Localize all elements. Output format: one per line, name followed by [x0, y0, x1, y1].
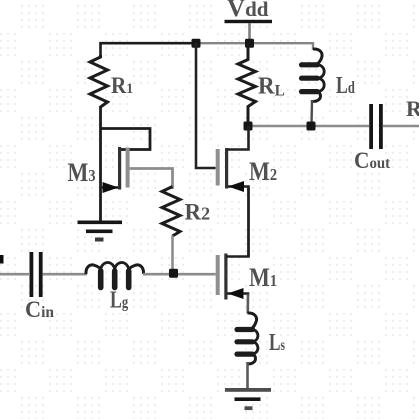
resistor R1 — [90, 55, 108, 107]
capacitor Cin — [30, 252, 43, 297]
transistor M1 — [216, 254, 249, 300]
ground under M3 — [78, 221, 123, 242]
label R (cut at edge) — [406, 96, 419, 121]
wire input to Cin — [0, 273, 29, 276]
wire R1 to M3 and ground (left vertical) — [99, 106, 102, 221]
wire output node horizontal — [248, 125, 369, 128]
wire M1 source to Ls — [247, 294, 250, 314]
wire Cout to edge — [383, 125, 419, 128]
wire M2 gate from rail — [196, 43, 216, 168]
svg-text:R2: R2 — [185, 200, 211, 225]
wire Ls to ground — [246, 362, 249, 389]
M2 gate bar — [216, 149, 220, 186]
label RL — [258, 73, 285, 100]
inductor Lg — [86, 263, 144, 288]
junction dot RL / M2 drain — [244, 122, 253, 131]
label M3 — [68, 159, 96, 187]
M1 drain lead — [226, 254, 249, 257]
M2 drain lead — [227, 126, 249, 150]
label M1 — [249, 264, 277, 292]
label Cin — [25, 297, 54, 322]
M3 source arrow — [103, 182, 119, 193]
junction dot rail / Vdd — [245, 39, 254, 48]
inductor Ld — [302, 49, 325, 101]
M2 source arrow — [228, 181, 244, 192]
M3 channel bar — [118, 147, 121, 190]
label Ld — [336, 71, 355, 98]
wire top rail right (gray) — [196, 43, 313, 50]
wire M2 source to M1 drain — [247, 188, 250, 257]
ground under Ls — [225, 388, 271, 410]
label R2 — [185, 200, 211, 225]
M3 gate bar — [126, 148, 130, 188]
transistor M2 — [216, 126, 249, 192]
label Lg — [110, 286, 129, 313]
junction dot input node — [169, 269, 178, 278]
resistor RL — [238, 43, 256, 122]
node Vdd label — [227, 0, 269, 22]
wire Ld bottom stem — [310, 100, 313, 126]
M2 source lead — [228, 187, 249, 191]
M2 channel bar — [225, 148, 228, 189]
junction dot rail / M2 gate — [192, 39, 201, 48]
wire top rail left (black) — [101, 43, 197, 57]
label M2 — [249, 158, 277, 186]
transistor M3 — [101, 147, 130, 193]
Vdd terminal bar — [225, 20, 273, 23]
wire M3 drain-gate loop — [101, 129, 151, 150]
junction dot Ld / output — [307, 122, 316, 131]
M1 gate bar — [216, 255, 220, 295]
wire R2 to input node — [171, 236, 174, 275]
wire Lg to input node to M1 gate — [143, 273, 216, 276]
wire Vdd stem — [248, 23, 251, 43]
M1 channel bar — [224, 254, 227, 300]
M1 source lead — [227, 294, 248, 297]
label R1 — [111, 72, 133, 98]
wire Cin to Lg — [43, 273, 87, 276]
resistor R2 — [162, 187, 180, 237]
M1 source arrow — [228, 288, 244, 299]
svg-text:Vdd: Vdd — [227, 0, 269, 22]
inductor Ls — [237, 313, 258, 364]
input terminal stub at left edge — [0, 255, 4, 264]
capacitor Cout — [369, 104, 383, 149]
label Cout — [354, 147, 391, 173]
svg-text:R: R — [406, 96, 419, 121]
wire M3 gate to R2 — [130, 169, 173, 190]
M3 source lead — [101, 186, 119, 189]
label Ls — [269, 328, 285, 356]
